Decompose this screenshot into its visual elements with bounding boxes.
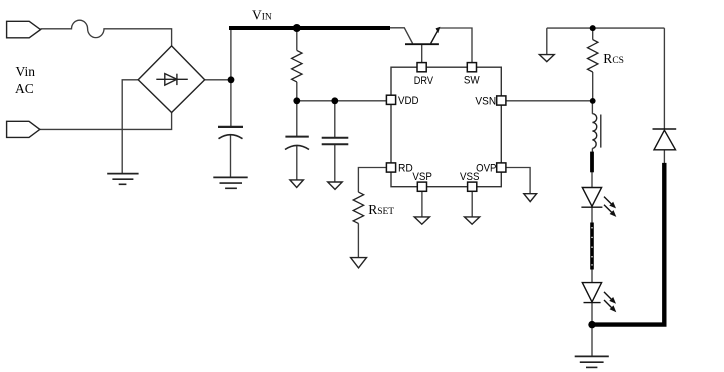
svg-text:VSS: VSS	[460, 171, 480, 183]
svg-text:AC: AC	[15, 81, 34, 96]
svg-text:VSP: VSP	[412, 171, 432, 183]
svg-text:VSN: VSN	[475, 95, 496, 107]
svg-text:DRV: DRV	[414, 75, 434, 87]
svg-text:VIN: VIN	[252, 8, 272, 23]
svg-text:SW: SW	[464, 75, 480, 87]
svg-text:VDD: VDD	[398, 95, 419, 107]
svg-text:RSET: RSET	[368, 202, 394, 217]
svg-text:Vin: Vin	[16, 64, 36, 79]
svg-text:RD: RD	[398, 162, 413, 174]
svg-text:RCS: RCS	[603, 51, 624, 66]
